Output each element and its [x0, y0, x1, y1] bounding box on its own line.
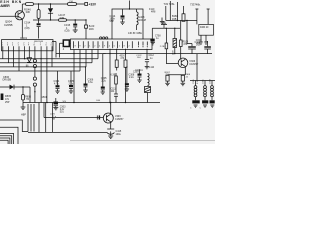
- wire IC101 pins down: [3, 51, 52, 71]
- svg-text:7R: 7R: [26, 98, 29, 101]
- svg-text:2.2B: 2.2B: [160, 46, 165, 48]
- svg-text:CSJ: CSJ: [69, 1, 73, 3]
- wire right coil rail: [190, 54, 215, 81]
- svg-text:+33V: +33V: [89, 2, 97, 6]
- node +33V terminal: [85, 3, 88, 6]
- wire collector Q004: [21, 4, 23, 12]
- resistor R110 column: [111, 74, 117, 93]
- wire IC101 to module: [52, 42, 56, 58]
- diode D806: [3, 76, 12, 82]
- capacitor C320 black pair: [196, 39, 202, 45]
- transistor V306: [178, 58, 188, 68]
- node module right pin ticks: [139, 42, 148, 46]
- wire D4M drops: [195, 9, 209, 24]
- svg-text:C305: C305: [203, 79, 205, 84]
- inductor L110: [149, 66, 155, 69]
- svg-text:733746b.: 733746b.: [190, 3, 201, 7]
- wire collector V403: [110, 103, 112, 115]
- inductor T301: [195, 81, 197, 86]
- capacitor C302: [88, 79, 94, 85]
- wire collector V306: [180, 47, 182, 60]
- node IC101 pin ticks: [3, 46, 52, 51]
- node module pin cell ticks: [74, 41, 133, 48]
- capacitor C301: [54, 80, 60, 86]
- svg-text:F109 A: F109 A: [136, 69, 144, 72]
- resistor R318: [160, 46, 165, 48]
- connector pins column x36: [33, 59, 36, 62]
- inductor L308 hatched: [174, 28, 176, 38]
- svg-text:222: 222: [196, 42, 201, 45]
- wire base V403: [44, 103, 103, 118]
- svg-text:100u: 100u: [116, 133, 122, 136]
- capacitor C708: [151, 28, 153, 38]
- svg-text:DRU5B: DRU5B: [3, 79, 12, 82]
- svg-text:HBP: HBP: [21, 113, 26, 116]
- capacitor C303 black: [55, 98, 57, 102]
- resistor HC47 33R: [59, 13, 66, 20]
- svg-text:33K: 33K: [26, 10, 31, 14]
- capacitor C014: [24, 21, 31, 31]
- svg-text:D4M 20: D4M 20: [200, 26, 209, 29]
- ground R806: [21, 107, 26, 110]
- resistor R307: [165, 72, 171, 76]
- capacitor D805 black left edge: [1, 94, 4, 101]
- svg-text:2.2u: 2.2u: [129, 76, 134, 79]
- wire rail y=28.3: [152, 27, 180, 29]
- capacitor C112: [149, 55, 155, 60]
- resistor R001: [26, 3, 34, 6]
- ground R306: [181, 83, 186, 86]
- wire bus rails: [0, 54, 106, 71]
- resistor R305: [183, 42, 189, 47]
- node module pin numbers: [75, 45, 131, 47]
- svg-text:C1685Y: C1685Y: [115, 118, 124, 121]
- capacitor C402 on base line: [96, 115, 98, 119]
- wire emitter V403: [110, 122, 112, 129]
- wire mid rail y=20: [33, 19, 86, 21]
- ground V403: [108, 136, 113, 139]
- svg-text:4.7u: 4.7u: [54, 83, 59, 86]
- svg-text:C304: C304: [210, 79, 212, 84]
- wire drops from top: [166, 1, 184, 21]
- node small labels mid bottom: [50, 114, 57, 121]
- svg-text:IC101: IC101: [20, 36, 28, 40]
- capacitor C015: [64, 23, 71, 33]
- capacitor C114: [110, 15, 116, 23]
- svg-text:4R8: 4R8: [151, 10, 156, 13]
- wire right mid rail y=53.5: [103, 53, 212, 55]
- wire emitter V306: [168, 66, 186, 74]
- box D4M 20: [199, 24, 214, 35]
- capacitor C308: [129, 74, 135, 80]
- IC101: [20, 36, 28, 40]
- ground C114: [120, 22, 125, 24]
- svg-text:L110: L110: [149, 66, 155, 69]
- ground C015: [73, 30, 78, 32]
- node top right labels: [149, 2, 201, 13]
- capacitor C415: [107, 128, 114, 130]
- diode D001: [50, 4, 52, 8]
- wire module pins down: [74, 50, 98, 103]
- wire verticals bottom left: [28, 103, 52, 133]
- svg-text:55P: 55P: [110, 20, 115, 23]
- wire nested corners: [0, 120, 28, 132]
- wire emitter Q004: [21, 19, 23, 39]
- capacitor C309: [133, 71, 139, 73]
- node bottom page edge: [70, 140, 215, 142]
- wire base Q004: [0, 15, 18, 17]
- node IC101 pin numbers: [1, 42, 52, 46]
- wire module top loop: [112, 9, 143, 39]
- inductor T303: [211, 81, 213, 86]
- svg-text:(C8): (C8): [65, 29, 70, 33]
- connector J4 bold: [63, 40, 69, 47]
- wire base V306 feed: [166, 49, 178, 64]
- svg-text:(C8): (C8): [25, 26, 30, 30]
- svg-text:1501: 1501: [42, 96, 48, 99]
- resistors R106 R107: [120, 55, 126, 60]
- svg-text:47R: 47R: [183, 44, 188, 46]
- resistor R304: [172, 15, 179, 21]
- wire top rail y=4: [23, 3, 86, 5]
- svg-text:25P: 25P: [5, 101, 10, 104]
- svg-text:C205B: C205B: [4, 23, 13, 27]
- svg-text:3.3u: 3.3u: [88, 81, 93, 84]
- inductor L403: [139, 16, 147, 22]
- diode D86: [27, 58, 31, 62]
- node coil labels: [193, 79, 212, 84]
- wire bottom rail: [28, 131, 107, 133]
- svg-text:T33 7V6L: T33 7V6L: [164, 2, 176, 6]
- wire RG46: [38, 4, 40, 23]
- ground top right: [160, 18, 164, 24]
- node HBP label: [21, 113, 26, 116]
- svg-text:2.2u: 2.2u: [101, 80, 106, 83]
- capacitor C305: [101, 77, 107, 83]
- wire verticals left: [41, 59, 47, 103]
- svg-text:33R: 33R: [60, 16, 65, 20]
- svg-text:501: 501: [60, 111, 65, 114]
- resistor R003 B-03: [85, 20, 87, 39]
- resistor R306: [185, 74, 191, 78]
- inductor T302: [204, 81, 206, 86]
- svg-text:0.35: 0.35: [197, 80, 199, 84]
- wire right rail y=20.5: [166, 20, 197, 22]
- svg-text:13F 8F 345E: 13F 8F 345E: [128, 32, 142, 35]
- capacitor C305b: [68, 80, 74, 86]
- transistor Q004: [15, 11, 24, 20]
- svg-text:C306: C306: [193, 79, 195, 84]
- resistor R002 CSJ: [68, 3, 77, 6]
- resistor RG46 33K: [24, 8, 31, 15]
- resistor R806: [25, 96, 31, 102]
- node pin labels grey: [128, 32, 142, 35]
- svg-text:16B: 16B: [172, 18, 177, 21]
- capacitor C322: [195, 41, 202, 47]
- wire D4M bottom pins: [201, 35, 206, 41]
- ground chassis inverted: [161, 22, 167, 28]
- ground R307: [165, 83, 170, 86]
- wire long rail y=103: [23, 102, 160, 104]
- svg-text:AMER: AMER: [0, 4, 10, 8]
- svg-text:1DK: 1DK: [89, 27, 94, 31]
- IC/module long box: [71, 39, 153, 50]
- node top-left title text: [0, 0, 22, 8]
- transistor V403: [103, 113, 113, 123]
- node circled pins above box: [100, 37, 102, 39]
- svg-text:100uH: 100uH: [139, 19, 147, 22]
